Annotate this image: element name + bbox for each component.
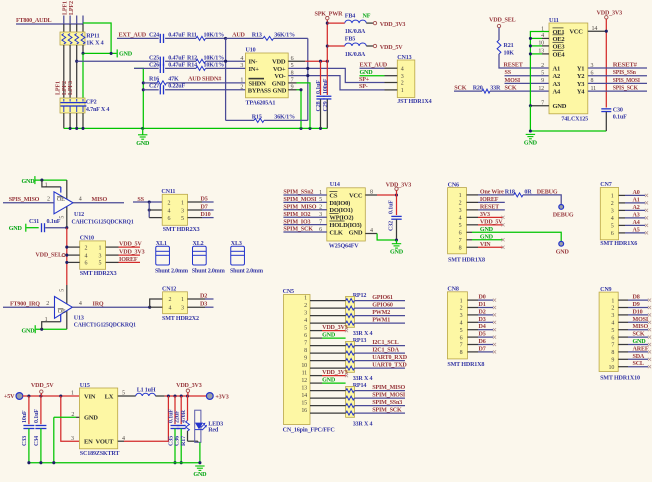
svg-text:SPIM_IO3: SPIM_IO3 xyxy=(283,219,310,225)
svg-text:5: 5 xyxy=(459,223,462,229)
svg-text:SPIM_SCK: SPIM_SCK xyxy=(372,408,402,414)
wire R12 to U10 pin4 xyxy=(206,60,246,62)
svg-text:1: 1 xyxy=(181,297,184,303)
svg-text:GND: GND xyxy=(633,339,647,345)
svg-text:I2C1_SCL: I2C1_SCL xyxy=(372,340,398,346)
svg-text:8: 8 xyxy=(370,190,373,196)
svg-text:D10: D10 xyxy=(633,309,643,315)
svg-text:OE3: OE3 xyxy=(553,43,566,50)
svg-text:EXT_AUD: EXT_AUD xyxy=(119,33,147,39)
svg-text:5: 5 xyxy=(304,326,307,332)
svg-text:0.1uF: 0.1uF xyxy=(168,409,174,423)
svg-text:1: 1 xyxy=(401,88,404,94)
svg-text:1: 1 xyxy=(459,193,462,199)
svg-text:VCC: VCC xyxy=(349,192,363,199)
wire CN8 D0 xyxy=(467,299,478,301)
svg-text:1: 1 xyxy=(319,190,322,196)
svg-text:2: 2 xyxy=(169,297,172,303)
svg-text:SMT HDR1X6: SMT HDR1X6 xyxy=(600,241,637,247)
svg-text:GND: GND xyxy=(390,249,404,255)
capacitor C30 0.1uF xyxy=(601,108,611,110)
capacitor pack CP2 xyxy=(60,98,85,113)
svg-text:CN6: CN6 xyxy=(448,182,459,188)
svg-text:2: 2 xyxy=(319,205,322,211)
svg-text:FT900_IRQ: FT900_IRQ xyxy=(10,301,40,307)
ground symbol on rail (x142.7) xyxy=(142,128,144,134)
wire CN8 D5 xyxy=(467,336,478,338)
wire CN7 A1 xyxy=(619,202,625,204)
wire One Wire / resistor R18 0R / DEBUG xyxy=(467,194,479,196)
wire C25 row left xyxy=(77,60,159,62)
svg-text:SC189ZSKTRT: SC189ZSKTRT xyxy=(80,451,120,457)
svg-text:U12: U12 xyxy=(74,212,84,218)
wire U13 power vertical xyxy=(66,285,68,329)
svg-text:GND: GND xyxy=(9,226,23,232)
power port VDD_3V3 (FB4 out) xyxy=(373,21,376,24)
svg-text:GPIO61: GPIO61 xyxy=(372,295,393,301)
svg-text:SMT HDR2X2: SMT HDR2X2 xyxy=(162,316,199,322)
svg-text:R14: R14 xyxy=(187,63,197,69)
svg-text:VDD: VDD xyxy=(272,59,286,66)
svg-text:8: 8 xyxy=(611,350,614,356)
svg-text:EXT_AUD: EXT_AUD xyxy=(360,62,388,68)
wire green down to GND symbol xyxy=(530,106,606,131)
svg-text:GND: GND xyxy=(22,328,36,334)
svg-text:UART0_RXD: UART0_RXD xyxy=(372,355,408,361)
svg-text:SPIM_MISO: SPIM_MISO xyxy=(372,385,405,391)
wire U12 enable pin1 xyxy=(42,180,61,187)
wire CN8 D2 xyxy=(467,314,478,316)
svg-text:VIN: VIN xyxy=(84,393,96,400)
svg-text:GND: GND xyxy=(84,415,98,422)
resistor R14 10K/1% xyxy=(196,66,206,70)
svg-text:1K/0.8A: 1K/0.8A xyxy=(345,29,366,35)
junction VO-/R15 xyxy=(306,74,309,77)
wire U13 output IRQ xyxy=(72,306,149,308)
svg-text:D8: D8 xyxy=(633,295,640,301)
svg-text:GND: GND xyxy=(136,141,150,147)
wire to CN12 pin4 xyxy=(150,306,163,308)
svg-text:Shunt 2.0mm: Shunt 2.0mm xyxy=(155,269,188,275)
svg-text:WP(IO2): WP(IO2) xyxy=(329,215,353,222)
svg-text:VDD_5V: VDD_5V xyxy=(480,219,503,225)
wire CN7 A4 xyxy=(619,224,625,226)
svg-text:A3: A3 xyxy=(633,212,640,218)
svg-text:R15: R15 xyxy=(252,115,262,121)
svg-text:1: 1 xyxy=(460,298,463,304)
svg-text:5: 5 xyxy=(181,216,184,222)
svg-text:D7: D7 xyxy=(201,204,208,210)
svg-text:IRQ: IRQ xyxy=(93,301,104,307)
svg-text:VDD_5V: VDD_5V xyxy=(380,45,403,51)
wire R11 to AUD node xyxy=(206,37,226,39)
svg-text:C28: C28 xyxy=(316,101,322,111)
svg-text:CLK: CLK xyxy=(329,229,343,236)
svg-text:12: 12 xyxy=(301,378,307,384)
wire U14 SPIM_MISO xyxy=(283,209,326,211)
svg-text:OE: OE xyxy=(57,197,65,203)
svg-text:C35: C35 xyxy=(168,436,174,446)
regulator U15 SC189ZSKTRT xyxy=(79,388,117,449)
svg-text:4: 4 xyxy=(79,301,82,307)
svg-text:IN-: IN- xyxy=(249,59,258,66)
svg-text:R16: R16 xyxy=(149,76,159,82)
svg-text:RESET: RESET xyxy=(504,63,523,69)
svg-text:3: 3 xyxy=(181,305,184,311)
svg-text:SMT HDR1X8: SMT HDR1X8 xyxy=(447,362,484,368)
svg-text:A2: A2 xyxy=(553,73,560,80)
svg-text:UART0_TXD: UART0_TXD xyxy=(372,363,407,369)
wire green C26 row to gnd vertical xyxy=(134,68,143,128)
svg-text:13: 13 xyxy=(301,386,307,392)
svg-text:CN5: CN5 xyxy=(283,289,294,295)
wire CN7 A3 xyxy=(619,217,625,219)
svg-text:0.22uF: 0.22uF xyxy=(168,83,185,89)
svg-text:A5: A5 xyxy=(633,227,640,233)
svg-text:Shunt 2.0mm: Shunt 2.0mm xyxy=(192,269,225,275)
svg-text:3: 3 xyxy=(611,209,614,215)
svg-text:SPIS_SSn: SPIS_SSn xyxy=(613,70,637,76)
svg-text:0.1uF: 0.1uF xyxy=(47,219,61,225)
svg-text:470R: 470R xyxy=(181,409,187,423)
svg-text:3: 3 xyxy=(71,436,74,442)
wire VOUT feedback xyxy=(124,396,168,441)
svg-text:GND: GND xyxy=(322,378,336,384)
svg-text:D9: D9 xyxy=(633,302,640,308)
svg-text:A1: A1 xyxy=(633,197,640,203)
svg-text:1: 1 xyxy=(611,298,614,304)
junction IRQ split xyxy=(148,306,151,309)
svg-text:10: 10 xyxy=(609,365,615,371)
svg-text:PWM1: PWM1 xyxy=(372,318,390,324)
wire U14 SPIM_IO3 xyxy=(283,224,326,226)
svg-text:R13: R13 xyxy=(252,33,262,39)
wire CN9 D10 xyxy=(618,314,628,316)
wire CN9 MISO xyxy=(618,329,628,331)
wire CN5 pin5 VDD_3V3 xyxy=(310,330,322,332)
wire R15 to VO- vertical xyxy=(264,119,308,121)
svg-text:5: 5 xyxy=(60,289,66,292)
svg-text:1: 1 xyxy=(99,245,102,251)
capacitor C29 100nF xyxy=(326,61,328,95)
svg-text:36K/1%: 36K/1% xyxy=(274,115,295,121)
svg-text:6: 6 xyxy=(611,335,614,341)
wire CN6 VDD_5V xyxy=(467,224,479,226)
svg-text:SMT HDR1X10: SMT HDR1X10 xyxy=(600,376,640,382)
svg-text:33R X 4: 33R X 4 xyxy=(353,376,373,382)
svg-text:CN13: CN13 xyxy=(397,55,411,61)
svg-text:7: 7 xyxy=(460,343,463,349)
wire U10 GND pin7 xyxy=(288,82,296,84)
svg-text:4: 4 xyxy=(459,216,462,222)
connector CN12 SMT HDR2X2 xyxy=(163,292,188,314)
svg-text:D3: D3 xyxy=(479,317,486,323)
wire FT800_AUDL bus xyxy=(16,23,83,25)
ferrite bead FB4 (NF) xyxy=(327,22,345,24)
svg-text:5: 5 xyxy=(99,261,102,267)
svg-text:7: 7 xyxy=(611,343,614,349)
svg-text:0.1uF: 0.1uF xyxy=(613,115,627,121)
svg-text:VO-: VO- xyxy=(274,73,285,80)
svg-text:1: 1 xyxy=(240,78,243,84)
svg-text:1K/0.8A: 1K/0.8A xyxy=(345,52,366,58)
svg-text:3: 3 xyxy=(99,253,102,259)
svg-text:SP-: SP- xyxy=(359,84,368,90)
svg-text:FB5: FB5 xyxy=(345,36,355,42)
svg-text:VDD_5V: VDD_5V xyxy=(31,383,54,389)
svg-text:EN: EN xyxy=(84,439,93,446)
capacitor C24 0.47uF xyxy=(159,34,161,43)
test pad DEBUG xyxy=(559,205,564,210)
svg-text:R18: R18 xyxy=(505,190,515,196)
ground symbol (U11) xyxy=(529,129,532,132)
svg-text:10K/1%: 10K/1% xyxy=(204,33,225,39)
wire U11 VCC pin14 xyxy=(588,30,607,32)
buffer U11 74LCX125 xyxy=(549,23,588,114)
svg-text:2: 2 xyxy=(168,200,171,206)
svg-text:C25: C25 xyxy=(149,55,159,61)
svg-text:C26: C26 xyxy=(149,63,159,69)
svg-text:R20: R20 xyxy=(473,86,483,92)
junction VO+/R13 xyxy=(306,67,309,70)
svg-text:2: 2 xyxy=(611,306,614,312)
svg-text:SPIM_SSn2: SPIM_SSn2 xyxy=(283,190,313,196)
wire LPF verticals bus to RP11 xyxy=(63,24,65,33)
pad +3V3 xyxy=(206,393,213,400)
svg-text:GND: GND xyxy=(553,103,567,110)
svg-text:10uF: 10uF xyxy=(22,410,28,423)
svg-text:Y2: Y2 xyxy=(577,73,584,80)
svg-text:D0: D0 xyxy=(479,295,486,301)
svg-text:100nF: 100nF xyxy=(323,78,329,94)
svg-text:SMT HDR2X3: SMT HDR2X3 xyxy=(80,271,117,277)
wire VCC red vertical xyxy=(605,19,607,108)
wire L1 to +3V3 xyxy=(155,395,164,397)
capacitor C32 0.1uF xyxy=(396,191,398,216)
svg-text:0.1uF: 0.1uF xyxy=(316,80,322,94)
svg-text:4: 4 xyxy=(169,305,172,311)
test pad GND xyxy=(559,241,564,246)
svg-text:CP2: CP2 xyxy=(86,100,97,106)
wire CN6 3V3 xyxy=(467,216,479,218)
svg-text:4: 4 xyxy=(168,208,171,214)
svg-text:CN7: CN7 xyxy=(600,182,611,188)
wire U14 SPIM_SCK xyxy=(283,231,326,233)
svg-text:MISO: MISO xyxy=(633,324,649,330)
svg-text:8: 8 xyxy=(304,348,307,354)
svg-text:2: 2 xyxy=(541,63,544,69)
svg-text:5: 5 xyxy=(611,328,614,334)
output Y wires and labels xyxy=(588,67,647,69)
svg-text:33R X 4: 33R X 4 xyxy=(353,331,373,337)
wire U12 power vertical xyxy=(66,180,68,228)
svg-text:IOREF: IOREF xyxy=(480,197,499,203)
svg-text:SPIM_MISO: SPIM_MISO xyxy=(283,205,316,211)
svg-text:8: 8 xyxy=(459,245,462,251)
svg-text:VDD_3V3: VDD_3V3 xyxy=(322,325,348,331)
svg-text:A3: A3 xyxy=(553,81,561,88)
svg-text:9: 9 xyxy=(611,358,614,364)
wire EXT_AUD to CN13 pin4 xyxy=(360,67,385,69)
wire CN9 SCL xyxy=(618,366,628,368)
svg-text:15: 15 xyxy=(301,401,307,407)
svg-text:8: 8 xyxy=(460,350,463,356)
wire CN7 A5 xyxy=(619,232,625,234)
node AUD xyxy=(224,37,227,40)
svg-text:SPIS_MOSI: SPIS_MOSI xyxy=(613,78,641,84)
svg-text:VDD_3V3: VDD_3V3 xyxy=(176,383,202,389)
svg-text:A2: A2 xyxy=(633,205,640,211)
svg-text:DO(IO1): DO(IO1) xyxy=(329,207,352,214)
svg-text:4: 4 xyxy=(85,253,88,259)
svg-text:C27: C27 xyxy=(149,83,159,89)
wire U10 GND pin9 xyxy=(288,89,296,91)
svg-text:D5: D5 xyxy=(479,332,486,338)
wires CN10 right: VDD_5V / VDD_3V3 / IOREF xyxy=(106,246,119,248)
wire R16 row left xyxy=(143,82,157,84)
wire SP- stub xyxy=(385,89,398,91)
svg-text:Y1: Y1 xyxy=(577,65,584,72)
svg-text:2: 2 xyxy=(46,301,49,307)
svg-text:D2: D2 xyxy=(479,309,486,315)
wire feedback vertical x307.8 xyxy=(307,38,309,120)
svg-text:22uF: 22uF xyxy=(175,410,181,423)
wire C31 to power vertical xyxy=(45,227,67,229)
svg-text:5: 5 xyxy=(460,328,463,334)
svg-text:VIN: VIN xyxy=(480,242,491,248)
svg-text:U15: U15 xyxy=(80,383,90,389)
wire SS into CN11 xyxy=(133,201,162,203)
svg-text:11: 11 xyxy=(302,371,308,377)
wire C27 row left xyxy=(143,89,158,91)
svg-text:3: 3 xyxy=(459,208,462,214)
svg-text:A0: A0 xyxy=(633,190,640,196)
svg-text:10K/1%: 10K/1% xyxy=(204,63,225,69)
svg-text:10: 10 xyxy=(301,363,307,369)
svg-text:SPIM_MOSI: SPIM_MOSI xyxy=(372,393,406,399)
wire CN8 D7 xyxy=(467,351,478,353)
svg-text:2: 2 xyxy=(47,197,50,203)
wire CN9 MOSI xyxy=(618,321,628,323)
wires CN12 right D2/D3 xyxy=(187,298,205,300)
svg-text:CN12: CN12 xyxy=(162,286,176,292)
connector CN10 SMT HDR2X3 xyxy=(80,241,106,269)
svg-text:6: 6 xyxy=(460,335,463,341)
svg-text:SP+: SP+ xyxy=(359,77,370,83)
junction AUD/IN- xyxy=(224,60,227,63)
resistor R16 47K xyxy=(157,81,167,85)
wire CN5 pin11 VDD_3V3 xyxy=(310,375,322,377)
svg-text:VCC: VCC xyxy=(569,28,583,35)
wire R13 to feedback vertical xyxy=(274,37,308,39)
svg-text:6: 6 xyxy=(611,231,614,237)
inductor L1 1uH xyxy=(136,393,156,396)
svg-text:D7: D7 xyxy=(479,346,486,352)
svg-text:0.47uF: 0.47uF xyxy=(168,55,185,61)
svg-text:VO+: VO+ xyxy=(273,66,286,73)
wire CN6 IOREF xyxy=(467,201,479,203)
resistor R21 10K xyxy=(498,28,500,40)
svg-text:6: 6 xyxy=(168,216,171,222)
wire CN9 D9 xyxy=(618,307,628,309)
wire CN8 D4 xyxy=(467,329,478,331)
connector CN7 SMT HDR1X6 xyxy=(600,188,618,240)
svg-text:6: 6 xyxy=(85,261,88,267)
junction at 83,53.4 xyxy=(81,52,84,55)
svg-text:NF: NF xyxy=(363,14,371,20)
svg-text:1: 1 xyxy=(611,194,614,200)
svg-text:Red: Red xyxy=(208,427,219,433)
wire CN6 RESET xyxy=(467,209,479,211)
wire U10 VO- pin8 to SP- xyxy=(288,76,384,90)
wires CN11 right D5/D7/D10 xyxy=(188,201,203,203)
svg-text:A1: A1 xyxy=(553,65,560,72)
svg-text:I2C1_SDA: I2C1_SDA xyxy=(372,348,399,354)
svg-text:VDD_SEL: VDD_SEL xyxy=(35,253,62,259)
svg-text:SPIM_IO2: SPIM_IO2 xyxy=(283,212,310,218)
wire VDD_5V rail xyxy=(23,395,80,397)
svg-text:SDA: SDA xyxy=(633,354,645,360)
svg-text:1: 1 xyxy=(71,391,74,397)
svg-text:U13: U13 xyxy=(74,315,84,321)
wire CN6 VIN xyxy=(467,246,479,248)
svg-text:10K/1%: 10K/1% xyxy=(204,55,225,61)
svg-text:5: 5 xyxy=(541,71,544,77)
svg-text:4: 4 xyxy=(611,216,614,222)
wire VDD_SEL red vertical xyxy=(66,228,68,285)
capacitor C31 0.1uF xyxy=(26,227,38,229)
svg-text:PWM2: PWM2 xyxy=(372,310,390,316)
resistor R13 36K/1% xyxy=(263,36,274,40)
svg-text:SMT HDR2X3: SMT HDR2X3 xyxy=(163,227,200,233)
wire main ground rail (green) xyxy=(64,127,328,129)
svg-text:C29: C29 xyxy=(323,101,329,111)
wire U14 GND pin4 xyxy=(365,233,377,235)
svg-text:16: 16 xyxy=(301,408,307,414)
svg-text:0.1uF: 0.1uF xyxy=(388,200,394,214)
junctions on green vertical x143.3 xyxy=(142,81,145,84)
capacitor C26 0.47uF xyxy=(159,64,161,73)
svg-text:1: 1 xyxy=(45,317,48,323)
svg-text:Y4: Y4 xyxy=(577,89,585,96)
wires CN10 left pins to VDD_SEL xyxy=(67,246,80,248)
svg-text:RP11: RP11 xyxy=(86,34,99,40)
wire SP+ stub xyxy=(385,82,398,84)
svg-text:CS: CS xyxy=(329,192,337,199)
svg-text:FT800_AUDL: FT800_AUDL xyxy=(16,18,52,24)
wire CN8 D1 xyxy=(467,307,478,309)
svg-text:4: 4 xyxy=(401,66,404,72)
wire GND green horizontal to GND port xyxy=(83,52,117,54)
wire R17 to LED3 xyxy=(188,440,198,442)
svg-text:2: 2 xyxy=(304,303,307,309)
resistor R15 36K/1% feedback xyxy=(226,119,254,121)
connector CN13 JST HDR1X4 xyxy=(397,60,415,98)
svg-text:C30: C30 xyxy=(613,107,623,113)
wire green LPF4 down to CP2 xyxy=(82,53,84,98)
svg-text:Y3: Y3 xyxy=(577,81,585,88)
wire C27 to U10 pin2 (BYPASS) xyxy=(165,89,245,91)
connector CN6 SMT HDR1X8 xyxy=(448,188,467,254)
svg-text:9: 9 xyxy=(304,356,307,362)
capacitor C34 0.1uF xyxy=(40,396,42,424)
capacitor C25 0.47uF xyxy=(159,57,161,66)
svg-text:2: 2 xyxy=(611,201,614,207)
capacitor C35 0.1uF xyxy=(174,396,176,424)
svg-text:CAHCT1G125QDCKRQ1: CAHCT1G125QDCKRQ1 xyxy=(74,322,136,328)
svg-text:7: 7 xyxy=(304,341,307,347)
svg-text:CN8: CN8 xyxy=(447,287,458,293)
